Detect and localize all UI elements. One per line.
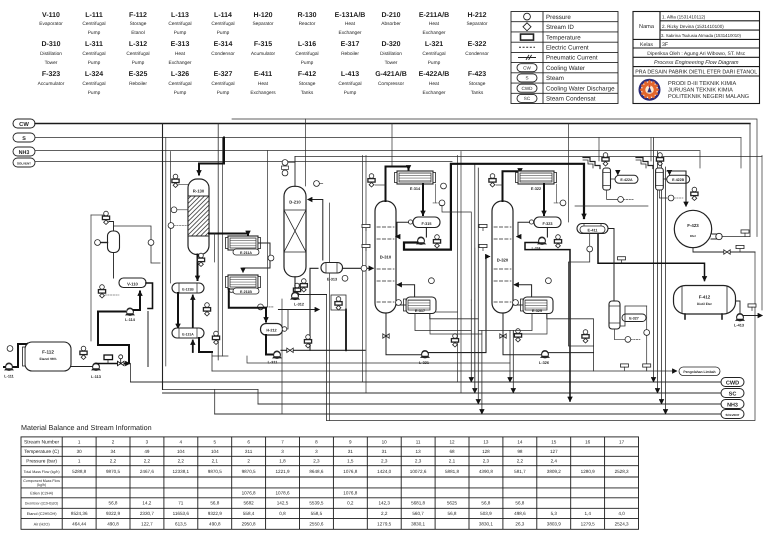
wire reflux <box>396 222 409 236</box>
svg-text:Acumulator: Acumulator <box>251 51 276 57</box>
svg-text:3809,2: 3809,2 <box>547 469 561 474</box>
svg-text:L-114: L-114 <box>125 318 136 322</box>
svg-text:Total Mass Flow (kg/h): Total Mass Flow (kg/h) <box>24 470 60 474</box>
svg-text:D-310: D-310 <box>380 255 392 260</box>
riser S left <box>165 138 167 367</box>
svg-text:NH3: NH3 <box>19 150 30 156</box>
svg-text:F-112: F-112 <box>129 12 147 19</box>
riser NH3 left <box>170 152 172 284</box>
heat exchanger E-411 <box>577 224 608 234</box>
wire E-317 bottoms <box>430 314 479 319</box>
instrument above G-421B <box>656 153 663 166</box>
wire DEE product to F-412 <box>525 243 570 402</box>
instrument E-314 outlet <box>433 184 445 206</box>
svg-text:E-314: E-314 <box>214 41 233 48</box>
nozzle flags on D-320 riser <box>479 224 487 231</box>
feed riser to D-310 <box>391 124 393 167</box>
svg-text:Etanol (C2H5OH): Etanol (C2H5OH) <box>27 512 57 516</box>
svg-text:128: 128 <box>482 449 490 454</box>
svg-text:34: 34 <box>110 449 116 454</box>
svg-text:4,0: 4,0 <box>618 511 625 516</box>
svg-text:104: 104 <box>177 449 185 454</box>
svg-text:L-312: L-312 <box>294 303 304 307</box>
svg-text:1424,0: 1424,0 <box>377 469 391 474</box>
wire H-212 vapor <box>287 310 288 330</box>
wire E-211A to E-211B <box>243 243 270 272</box>
wire F-423 bottom outlet <box>693 248 755 252</box>
svg-text:F-412: F-412 <box>298 71 316 78</box>
svg-text:2,4: 2,4 <box>551 459 558 464</box>
svg-text:3F: 3F <box>662 42 668 48</box>
svg-text:8524,36: 8524,36 <box>71 511 88 516</box>
svg-text:Centrifugal: Centrifugal <box>338 81 361 87</box>
svg-text:L-324: L-324 <box>85 71 103 78</box>
svg-text:5,3: 5,3 <box>551 511 558 516</box>
svg-text:E-322: E-322 <box>531 187 541 191</box>
svg-text:E-131A/B: E-131A/B <box>335 11 366 19</box>
svg-text:Reboiler: Reboiler <box>129 81 147 87</box>
condenser E-314 <box>395 171 436 191</box>
wire F-315 to L-316 <box>425 228 427 238</box>
limbah drop <box>593 346 595 371</box>
svg-text:4390,8: 4390,8 <box>479 469 493 474</box>
svg-text:L-326: L-326 <box>539 361 549 365</box>
svg-text:L-113: L-113 <box>171 12 189 19</box>
instrument on feed line <box>361 265 367 271</box>
wire L-311 discharge <box>281 349 365 351</box>
svg-text:5682: 5682 <box>243 501 254 506</box>
pump L-311 <box>268 351 282 365</box>
S supply label <box>13 133 35 142</box>
svg-text:Process Engineering Flow Diagr: Process Engineering Flow Diagram <box>654 60 739 66</box>
svg-text:5: 5 <box>214 440 217 445</box>
svg-text:Reactor: Reactor <box>299 21 316 27</box>
svg-text:56,8: 56,8 <box>515 501 524 506</box>
wire riser to L-114 loop <box>147 312 149 367</box>
svg-text:H-212: H-212 <box>266 328 276 332</box>
svg-text:Pump: Pump <box>88 60 101 66</box>
wire recirc down <box>98 341 129 362</box>
svg-text:F-112: F-112 <box>42 350 54 355</box>
svg-text:490,8: 490,8 <box>107 522 119 527</box>
svg-text:Pump: Pump <box>132 60 145 66</box>
svg-text:1078,6: 1078,6 <box>275 491 289 496</box>
svg-text:(kg/h): (kg/h) <box>37 483 46 487</box>
svg-text:104: 104 <box>211 449 219 454</box>
instrument above E-325 <box>546 278 552 284</box>
valve L-311 line <box>287 348 293 352</box>
svg-text:17: 17 <box>619 440 625 445</box>
svg-text:56,8: 56,8 <box>109 501 118 506</box>
svg-text:9870,5: 9870,5 <box>106 469 120 474</box>
CWD return label <box>721 378 744 387</box>
instrument R-130 side <box>171 207 177 213</box>
control valve on discharge <box>118 355 125 366</box>
svg-text:Exchanger: Exchanger <box>169 60 192 66</box>
wire D-320 overhead to E-322 <box>503 171 521 201</box>
exchanger E-327 <box>609 301 646 329</box>
svg-text:D-210: D-210 <box>289 200 301 205</box>
svg-text:S: S <box>22 136 26 142</box>
wire H-212 bottoms <box>266 335 274 355</box>
wire E-411 to F-412 <box>598 234 705 281</box>
wire E-322 to F-323 <box>543 184 545 215</box>
svg-text:E-317: E-317 <box>341 41 360 48</box>
solvent return label <box>721 410 744 419</box>
svg-text:Stream Number: Stream Number <box>24 440 60 446</box>
wire cold riser through exchangers <box>192 296 194 329</box>
svg-text:3830,1: 3830,1 <box>411 522 425 527</box>
valve D-320 bottoms <box>500 334 506 338</box>
instrument E-314 right <box>441 183 447 189</box>
svg-text:16: 16 <box>585 440 591 445</box>
svg-text:Dietil Eter ((C2H5)2O): Dietil Eter ((C2H5)2O) <box>25 502 58 506</box>
svg-text:H-120: H-120 <box>253 12 272 19</box>
svg-text:2: 2 <box>247 459 250 464</box>
svg-text:Kelas: Kelas <box>640 42 653 48</box>
return bundle D-310 section <box>470 300 472 382</box>
svg-text:6: 6 <box>247 440 250 445</box>
svg-text:Temperature: Temperature <box>546 34 581 41</box>
svg-text:2: 2 <box>112 440 115 445</box>
svg-text:F-412: F-412 <box>699 295 711 300</box>
svg-text:490,8: 490,8 <box>209 522 221 527</box>
svg-text:H-212: H-212 <box>467 12 486 19</box>
svg-text:Eter: Eter <box>690 234 697 238</box>
svg-text:Dietil Eter: Dietil Eter <box>697 302 713 306</box>
column D-310 <box>375 201 396 313</box>
right return bundle <box>653 138 655 382</box>
wire column side drop <box>214 234 216 263</box>
wire instr down to V-110 right <box>151 246 160 264</box>
Pengolahan Limbah label <box>679 367 720 376</box>
storage sphere F-423 <box>674 210 722 247</box>
compressor G-421B <box>636 158 663 191</box>
wire L-321 discharge to D-320 <box>429 257 490 353</box>
svg-text:L-114: L-114 <box>214 12 232 19</box>
wire E-131A outlet down <box>199 338 212 352</box>
instrument H-120 top <box>102 211 109 224</box>
svg-text:Centrifugal: Centrifugal <box>82 81 105 87</box>
svg-text:31: 31 <box>382 449 388 454</box>
svg-text:Centrifugal: Centrifugal <box>168 21 191 27</box>
svg-text:2,1: 2,1 <box>449 459 456 464</box>
level gauge E-317 <box>396 300 402 306</box>
riser at E-411 <box>568 124 570 223</box>
wire R-130 overhead to E-211A <box>209 234 248 236</box>
accumulator F-315 <box>413 217 440 228</box>
svg-text:9322,9: 9322,9 <box>106 511 120 516</box>
svg-text:Etilen (C2H4): Etilen (C2H4) <box>30 492 54 496</box>
temperature flag outlet <box>736 245 744 252</box>
reboiler E-325 <box>521 297 554 314</box>
upper header line <box>232 119 757 237</box>
svg-text:Pump: Pump <box>428 60 441 66</box>
condenser E-322 <box>516 171 557 191</box>
svg-text:Pump: Pump <box>174 90 187 96</box>
svg-text:4: 4 <box>180 440 183 445</box>
svg-text:Material Balance and Stream In: Material Balance and Stream Information <box>21 423 152 432</box>
svg-text:1076,8: 1076,8 <box>242 491 256 496</box>
wire L-326 discharge to waste <box>549 352 594 354</box>
svg-text:L-311: L-311 <box>268 361 278 365</box>
svg-text:3830,1: 3830,1 <box>479 522 493 527</box>
svg-text:Pressure (bar): Pressure (bar) <box>26 459 57 465</box>
svg-text:Exchanger: Exchanger <box>423 90 446 96</box>
symbol legend table <box>511 12 618 104</box>
svg-text:Absorber: Absorber <box>381 21 401 27</box>
svg-text:Diperiksa Oleh : Agung Ari Wib: Diperiksa Oleh : Agung Ari Wibowo, ST. M… <box>647 51 746 57</box>
instrument below R-130 <box>197 253 204 266</box>
svg-text:2,1: 2,1 <box>212 459 219 464</box>
svg-text:2,3: 2,3 <box>381 459 388 464</box>
instrument E-313 <box>342 275 348 281</box>
instrument E-322 outlet <box>554 184 566 206</box>
svg-text:L-321: L-321 <box>419 361 429 365</box>
svg-text:E-211A: E-211A <box>240 251 252 255</box>
svg-text:E-422A: E-422A <box>620 178 633 182</box>
svg-text:V-110: V-110 <box>42 12 60 19</box>
separator H-120 <box>108 231 120 253</box>
svg-text:558,5: 558,5 <box>311 511 323 516</box>
svg-text:0,2: 0,2 <box>347 501 354 506</box>
CW header line <box>35 123 750 125</box>
wire column to reboiler <box>513 304 523 306</box>
wire reboiler return <box>398 285 415 297</box>
svg-text:Pump: Pump <box>174 30 187 36</box>
svg-text:498,6: 498,6 <box>514 511 526 516</box>
svg-text:10072,6: 10072,6 <box>410 469 427 474</box>
svg-text:E-411: E-411 <box>588 228 598 232</box>
instrument above L-312 <box>300 279 307 292</box>
svg-text:F-423: F-423 <box>687 223 699 228</box>
svg-text:Tower: Tower <box>385 60 398 66</box>
absorber D-210 <box>284 186 306 276</box>
svg-text:9322,9: 9322,9 <box>208 511 222 516</box>
svg-text:SC: SC <box>524 96 531 101</box>
svg-text:Etanol 96%: Etanol 96% <box>39 357 56 361</box>
wire evaporator recirc <box>98 312 125 342</box>
NH3 return drop <box>257 390 259 405</box>
svg-text:2,2: 2,2 <box>517 459 524 464</box>
instrument below E-411 <box>587 246 593 252</box>
svg-text:Centrifugal: Centrifugal <box>168 81 191 87</box>
svg-text:Steam Condensat: Steam Condensat <box>546 96 596 103</box>
svg-text:Heat: Heat <box>258 81 269 87</box>
svg-text:464,44: 464,44 <box>72 522 86 527</box>
svg-text:Pump: Pump <box>88 30 101 36</box>
wire S to G-421B <box>650 138 652 162</box>
wire S to G-421A <box>598 138 600 162</box>
svg-text:1279,5: 1279,5 <box>377 522 391 527</box>
wire suction header <box>575 205 648 207</box>
wire inst tap <box>177 209 188 211</box>
wire L-113 discharge <box>96 363 130 365</box>
svg-text:SC: SC <box>729 391 737 397</box>
absorber feed riser pair <box>326 295 328 421</box>
svg-text:Centrifugal: Centrifugal <box>211 81 234 87</box>
solvent header line <box>35 161 452 163</box>
svg-text:Centrifugal: Centrifugal <box>126 51 149 57</box>
svg-text:CWD: CWD <box>522 86 534 91</box>
svg-text:E-131A: E-131A <box>182 333 194 337</box>
svg-text:Heat: Heat <box>429 81 440 87</box>
wire E-131B to E-131A <box>177 293 179 328</box>
wire F-112 to L-113 <box>71 366 93 368</box>
svg-text:56,8: 56,8 <box>481 501 490 506</box>
wire H-212 vapor header <box>278 309 319 311</box>
material balance table <box>21 437 639 529</box>
instrument above R-130 <box>172 174 179 187</box>
riser D-210 <box>281 299 283 414</box>
svg-text:L-311: L-311 <box>85 41 103 48</box>
svg-text:E-211B: E-211B <box>240 290 252 294</box>
svg-text:0,8: 0,8 <box>279 511 286 516</box>
svg-text:311: 311 <box>245 449 253 454</box>
wire E-411 outlet to E-327 <box>608 229 614 302</box>
NH3 return label <box>721 400 744 409</box>
svg-text:Heat: Heat <box>429 21 440 27</box>
svg-text:E-327: E-327 <box>629 317 639 321</box>
wire inst to reactor <box>179 184 189 186</box>
svg-text:26,3: 26,3 <box>515 522 524 527</box>
svg-text:9870,5: 9870,5 <box>208 469 222 474</box>
solvent supply label <box>13 158 35 167</box>
wire vapor feed arrow into D-210 <box>308 200 323 261</box>
svg-text:Exchanger: Exchanger <box>423 30 446 36</box>
svg-text:F-315: F-315 <box>422 222 432 226</box>
wire column to reboiler <box>396 304 406 306</box>
svg-text:Compressor: Compressor <box>378 81 405 87</box>
left section frame <box>90 215 92 341</box>
temperature box on discharge <box>104 355 113 364</box>
svg-text:49: 49 <box>144 449 150 454</box>
wire E-325 bottoms <box>547 314 594 347</box>
wire D-210 bottoms <box>294 277 296 293</box>
svg-text:13: 13 <box>416 449 422 454</box>
svg-text:3: 3 <box>146 440 149 445</box>
instrument above H-212 <box>293 283 300 296</box>
svg-text:Stream ID: Stream ID <box>546 24 574 31</box>
svg-text:Condensor: Condensor <box>211 51 235 57</box>
pump L-413 <box>734 313 745 327</box>
instrument left of E-322 <box>489 174 496 187</box>
svg-text:98: 98 <box>517 449 523 454</box>
svg-text:5539,5: 5539,5 <box>309 501 323 506</box>
instrument between exchangers <box>203 303 210 316</box>
svg-text:L-413: L-413 <box>341 71 359 78</box>
svg-text:D-320: D-320 <box>497 258 509 263</box>
wire cw to E-314 <box>375 184 386 186</box>
svg-text:E-131B: E-131B <box>182 288 194 292</box>
svg-text:E-211A/B: E-211A/B <box>419 11 449 19</box>
svg-text:Storage: Storage <box>469 81 486 87</box>
svg-text:8: 8 <box>315 440 318 445</box>
svg-text:Reboiler: Reboiler <box>341 51 359 57</box>
svg-text:E-322: E-322 <box>468 41 487 48</box>
wire F-112 inlet drop <box>29 344 31 347</box>
svg-text:142,3: 142,3 <box>378 501 390 506</box>
svg-text:1. Alfia (1531410112): 1. Alfia (1531410112) <box>662 15 706 20</box>
wire H-120 top <box>109 222 114 232</box>
svg-text:12338,1: 12338,1 <box>172 469 189 474</box>
temperature flag L-413 <box>748 304 756 311</box>
svg-text:7: 7 <box>281 440 284 445</box>
svg-text:8648,6: 8648,6 <box>309 469 323 474</box>
wire H-120 bottom <box>113 253 115 279</box>
heat exchanger E-211B <box>226 275 261 294</box>
svg-text:13: 13 <box>483 440 489 445</box>
wire reactor feed <box>199 138 224 175</box>
SC return line <box>163 392 722 394</box>
svg-text:2528,3: 2528,3 <box>615 469 629 474</box>
svg-text:SOLVENT: SOLVENT <box>17 161 31 165</box>
instrument left of V-110 <box>98 285 119 298</box>
wire E-411 drain to waste <box>569 252 594 346</box>
riser pair mid <box>457 156 459 383</box>
temperature flags bottom <box>621 364 629 371</box>
instrument right of E-211A <box>293 242 300 255</box>
CW right end drop <box>749 124 751 237</box>
svg-text:31: 31 <box>348 449 354 454</box>
column D-320 <box>492 201 513 313</box>
SC collector start <box>163 389 259 391</box>
wire E-313 to D-310 <box>343 267 374 269</box>
svg-text:Pump: Pump <box>217 90 230 96</box>
svg-text:JURUSAN TEKNIK KIMIA: JURUSAN TEKNIK KIMIA <box>668 88 733 94</box>
wire ether vapor to F-423 <box>667 171 686 206</box>
svg-text:1: 1 <box>78 459 81 464</box>
svg-text:Storage: Storage <box>299 81 316 87</box>
svg-text:14,2: 14,2 <box>142 501 151 506</box>
instrument on feed riser <box>314 181 323 187</box>
wire E-411 drain <box>589 234 591 247</box>
svg-text:5881,8: 5881,8 <box>445 469 459 474</box>
svg-text:Pneumatic Current: Pneumatic Current <box>546 55 598 62</box>
svg-text:Centrifugal: Centrifugal <box>82 51 105 57</box>
svg-text:R-130: R-130 <box>193 189 205 194</box>
svg-text:Centrifugal: Centrifugal <box>82 21 105 27</box>
separator H-212 <box>261 324 287 336</box>
svg-text:71: 71 <box>178 501 184 506</box>
svg-text:9: 9 <box>349 440 352 445</box>
instrument left <box>582 330 589 343</box>
pump L-113 <box>91 363 101 379</box>
svg-text:1076,8: 1076,8 <box>343 469 357 474</box>
svg-text:1,5: 1,5 <box>347 459 354 464</box>
svg-text:2,2: 2,2 <box>178 459 185 464</box>
svg-text:Heat: Heat <box>345 21 356 27</box>
solvent return line <box>215 413 721 415</box>
waste line <box>212 370 677 372</box>
svg-text:F-423: F-423 <box>468 71 486 78</box>
svg-text:CW: CW <box>19 121 29 128</box>
svg-text:1280,9: 1280,9 <box>581 469 595 474</box>
svg-text:PRODI D-III TEKNIK KIMIA: PRODI D-III TEKNIK KIMIA <box>668 81 737 87</box>
level gauge E-325 <box>513 300 519 306</box>
svg-text:E-314: E-314 <box>410 187 421 191</box>
wire H-120 overhead to riser <box>114 226 152 240</box>
wire L-413 discharge <box>743 315 762 317</box>
svg-text:Distillation: Distillation <box>380 51 402 57</box>
svg-text:2,3: 2,3 <box>415 459 422 464</box>
svg-text:PRA DESAIN PABRIK DIETIL ETER: PRA DESAIN PABRIK DIETIL ETER DARI ETANO… <box>635 70 757 76</box>
svg-text:E-325: E-325 <box>532 309 542 313</box>
svg-text:Pump: Pump <box>344 90 357 96</box>
svg-text:E-422A/B: E-422A/B <box>419 70 450 78</box>
instrument below E-131A <box>212 331 219 344</box>
NH3 drop to H-212 <box>267 151 269 308</box>
